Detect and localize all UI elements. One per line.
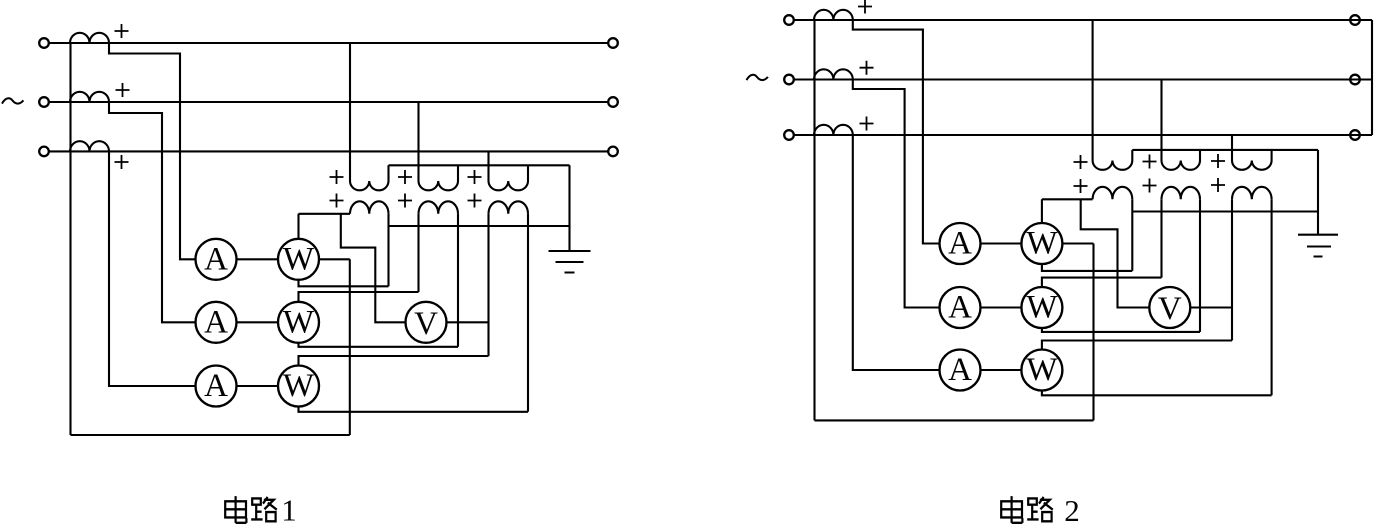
voltage transformer TV4 secondary xyxy=(1093,187,1133,200)
wire phase R3 xyxy=(794,134,1372,136)
polarity + TV1 primary xyxy=(330,170,344,184)
svg-text:2: 2 xyxy=(1064,493,1080,525)
voltage transformer TV3 primary xyxy=(489,151,529,190)
svg-text:A: A xyxy=(204,241,228,277)
polarity + TA1 xyxy=(115,24,129,38)
source ~ (circuit 2 AC source symbol) xyxy=(747,75,768,80)
wire W6 top to TV6 secondary left xyxy=(1042,199,1232,349)
label caption lu (circuit 2) xyxy=(1027,497,1053,521)
terminal R2 left xyxy=(784,75,794,85)
wire TA1 secondary lead to A1 xyxy=(109,43,196,259)
wattmeter W5 xyxy=(1021,287,1062,328)
svg-text:W: W xyxy=(283,241,315,277)
wire return rail riser to W1 xyxy=(349,259,351,435)
terminal R1 right xyxy=(1350,15,1360,25)
voltage transformer TV6 secondary xyxy=(1232,187,1272,200)
terminal R3 left xyxy=(784,130,794,140)
wire W6 bottom to TV6 secondary right xyxy=(1042,199,1272,395)
wire TV primary common circuit 2 xyxy=(1132,149,1318,151)
wire phase R2 xyxy=(794,78,1372,80)
svg-text:W: W xyxy=(1026,352,1058,388)
wattmeter W1 xyxy=(278,239,319,280)
wire TA3 secondary lead to A3 xyxy=(109,151,196,386)
current transformer TA6 winding xyxy=(814,125,853,135)
svg-text:1: 1 xyxy=(281,493,297,525)
wire W1 right to return rail xyxy=(319,258,350,260)
wire W3 top to TV3 secondary left xyxy=(299,214,489,366)
wire bottom return rail circuit 2 xyxy=(815,419,1094,421)
wire earth lead xyxy=(568,165,570,251)
terminal R2 right xyxy=(1350,75,1360,85)
voltage transformer TV2 primary xyxy=(419,102,459,190)
label caption dian (circuit 1) xyxy=(225,496,246,523)
svg-text:W: W xyxy=(1026,290,1058,326)
wire TA5 secondary lead to A5 xyxy=(853,80,940,308)
voltage transformer TV3 secondary xyxy=(489,201,529,214)
wire W4 top to TV4 secondary left xyxy=(1042,199,1093,223)
polarity + TV5 secondary xyxy=(1143,179,1157,193)
wire phase L3 xyxy=(49,150,608,152)
current transformer TA4 winding xyxy=(814,10,853,20)
polarity + TA3 xyxy=(115,155,129,169)
wire A6-W6 xyxy=(981,369,1022,371)
polarity + TV6 secondary xyxy=(1211,178,1225,192)
polarity + TV2 primary xyxy=(398,170,412,184)
polarity + TV1 secondary xyxy=(330,194,344,208)
svg-text:A: A xyxy=(204,368,228,404)
wire W4 right to return rail xyxy=(1062,242,1093,244)
wire return rail riser to W4 xyxy=(1092,244,1094,421)
polarity + TV5 primary xyxy=(1143,155,1157,169)
polarity + TV3 secondary xyxy=(468,194,482,208)
svg-text:V: V xyxy=(414,306,438,342)
terminal R1 left xyxy=(784,15,794,25)
svg-text:A: A xyxy=(948,290,972,326)
wire W4 bottom to TV4 secondary right xyxy=(1042,199,1132,271)
terminal R3 right xyxy=(1350,130,1360,140)
svg-text:A: A xyxy=(204,304,228,340)
wire secondary common to earth circuit 2 xyxy=(1132,210,1318,212)
wire voltmeter 2 right branch xyxy=(1190,306,1232,308)
wire earth lead circuit 2 xyxy=(1317,150,1319,235)
wire secondary common to earth xyxy=(389,225,570,227)
polarity + TA2 xyxy=(116,83,130,97)
wire voltmeter 2 left branch xyxy=(1081,199,1150,307)
wire W2 top to TV2 secondary left xyxy=(299,214,419,302)
svg-text:W: W xyxy=(283,368,315,404)
voltage transformer TV2 secondary xyxy=(419,201,459,214)
terminal L2 left xyxy=(39,97,49,107)
voltage transformer TV5 secondary xyxy=(1162,187,1201,200)
current transformer TA2 winding xyxy=(70,92,109,102)
polarity + TV6 primary xyxy=(1211,154,1225,168)
ammeter A4 xyxy=(940,223,981,264)
wire phase L1 xyxy=(49,42,608,44)
voltage transformer TV1 secondary xyxy=(350,201,389,214)
source ~ (circuit 1 AC source symbol) xyxy=(2,98,23,103)
wattmeter W2 xyxy=(278,302,319,343)
wire right edge tie xyxy=(1371,20,1373,135)
wire W2 bottom to TV2 secondary right xyxy=(299,214,459,347)
terminal L2 right xyxy=(608,97,618,107)
wire W5 top to TV5 secondary left xyxy=(1042,199,1162,287)
wire W3 bottom to TV3 secondary right xyxy=(299,214,529,412)
wire A5-W5 xyxy=(981,306,1022,308)
wattmeter W3 xyxy=(278,366,319,407)
svg-text:W: W xyxy=(1026,226,1058,262)
wire TA6 secondary lead to A6 xyxy=(853,135,940,370)
wire W5 bottom to TV5 secondary right xyxy=(1042,199,1200,332)
voltmeter V2 xyxy=(1149,287,1190,328)
voltage transformer TV5 primary xyxy=(1162,80,1201,170)
ammeter A3 xyxy=(196,366,237,407)
ammeter A2 xyxy=(196,302,237,343)
current transformer TA3 winding xyxy=(70,141,109,151)
wire A1-W1 xyxy=(237,258,279,260)
wire phase R1 xyxy=(794,19,1372,21)
terminal L3 right xyxy=(608,147,618,157)
current transformer TA5 winding xyxy=(814,69,853,79)
voltage transformer TV6 primary xyxy=(1232,135,1272,170)
wattmeter W4 xyxy=(1021,223,1062,264)
label caption dian (circuit 2) xyxy=(1001,496,1022,523)
svg-text:W: W xyxy=(283,304,315,340)
wire A3-W3 xyxy=(237,385,279,387)
wire A4-W4 xyxy=(981,242,1022,244)
wire W1 top to TV1 secondary left xyxy=(299,214,351,239)
svg-text:A: A xyxy=(948,226,972,262)
svg-text:V: V xyxy=(1158,291,1182,327)
wire phase L2 xyxy=(49,101,608,103)
wire TA4 secondary lead to A4 xyxy=(853,20,940,244)
wire A2-W2 xyxy=(237,321,279,323)
wire voltmeter left branch xyxy=(341,214,406,322)
wire TA2 secondary lead to A2 xyxy=(109,102,196,322)
voltage transformer TV1 primary xyxy=(350,43,389,190)
wire W1 bottom to TV1 secondary right xyxy=(299,214,389,286)
terminal L1 left xyxy=(39,38,49,48)
wire voltmeter right branch xyxy=(447,321,489,323)
ammeter A5 xyxy=(940,287,981,328)
terminal L3 left xyxy=(39,147,49,157)
polarity + TV4 secondary xyxy=(1074,179,1088,193)
polarity + TV4 primary xyxy=(1074,155,1088,169)
voltage transformer TV4 primary xyxy=(1093,20,1133,170)
polarity + TA6 xyxy=(860,117,874,131)
ammeter A1 xyxy=(196,239,237,280)
polarity + TA4 xyxy=(858,0,872,14)
polarity + TA5 xyxy=(860,61,874,75)
ammeter A6 xyxy=(940,350,981,391)
wire TA common left lead xyxy=(69,43,71,435)
label caption lu (circuit 1) xyxy=(251,497,277,521)
wire bottom return rail xyxy=(71,434,350,436)
terminal L1 right xyxy=(608,38,618,48)
wire TV primary common xyxy=(389,164,570,166)
wire TA common left lead circuit 2 xyxy=(813,20,815,420)
current transformer TA1 winding xyxy=(70,33,109,43)
polarity + TV3 primary xyxy=(468,170,482,184)
voltmeter V xyxy=(406,302,447,343)
polarity + TV2 secondary xyxy=(398,194,412,208)
svg-text:A: A xyxy=(948,352,972,388)
ground symbol circuit 2 xyxy=(1298,235,1338,257)
ground symbol circuit 1 xyxy=(549,251,591,273)
wattmeter W6 xyxy=(1021,350,1062,391)
